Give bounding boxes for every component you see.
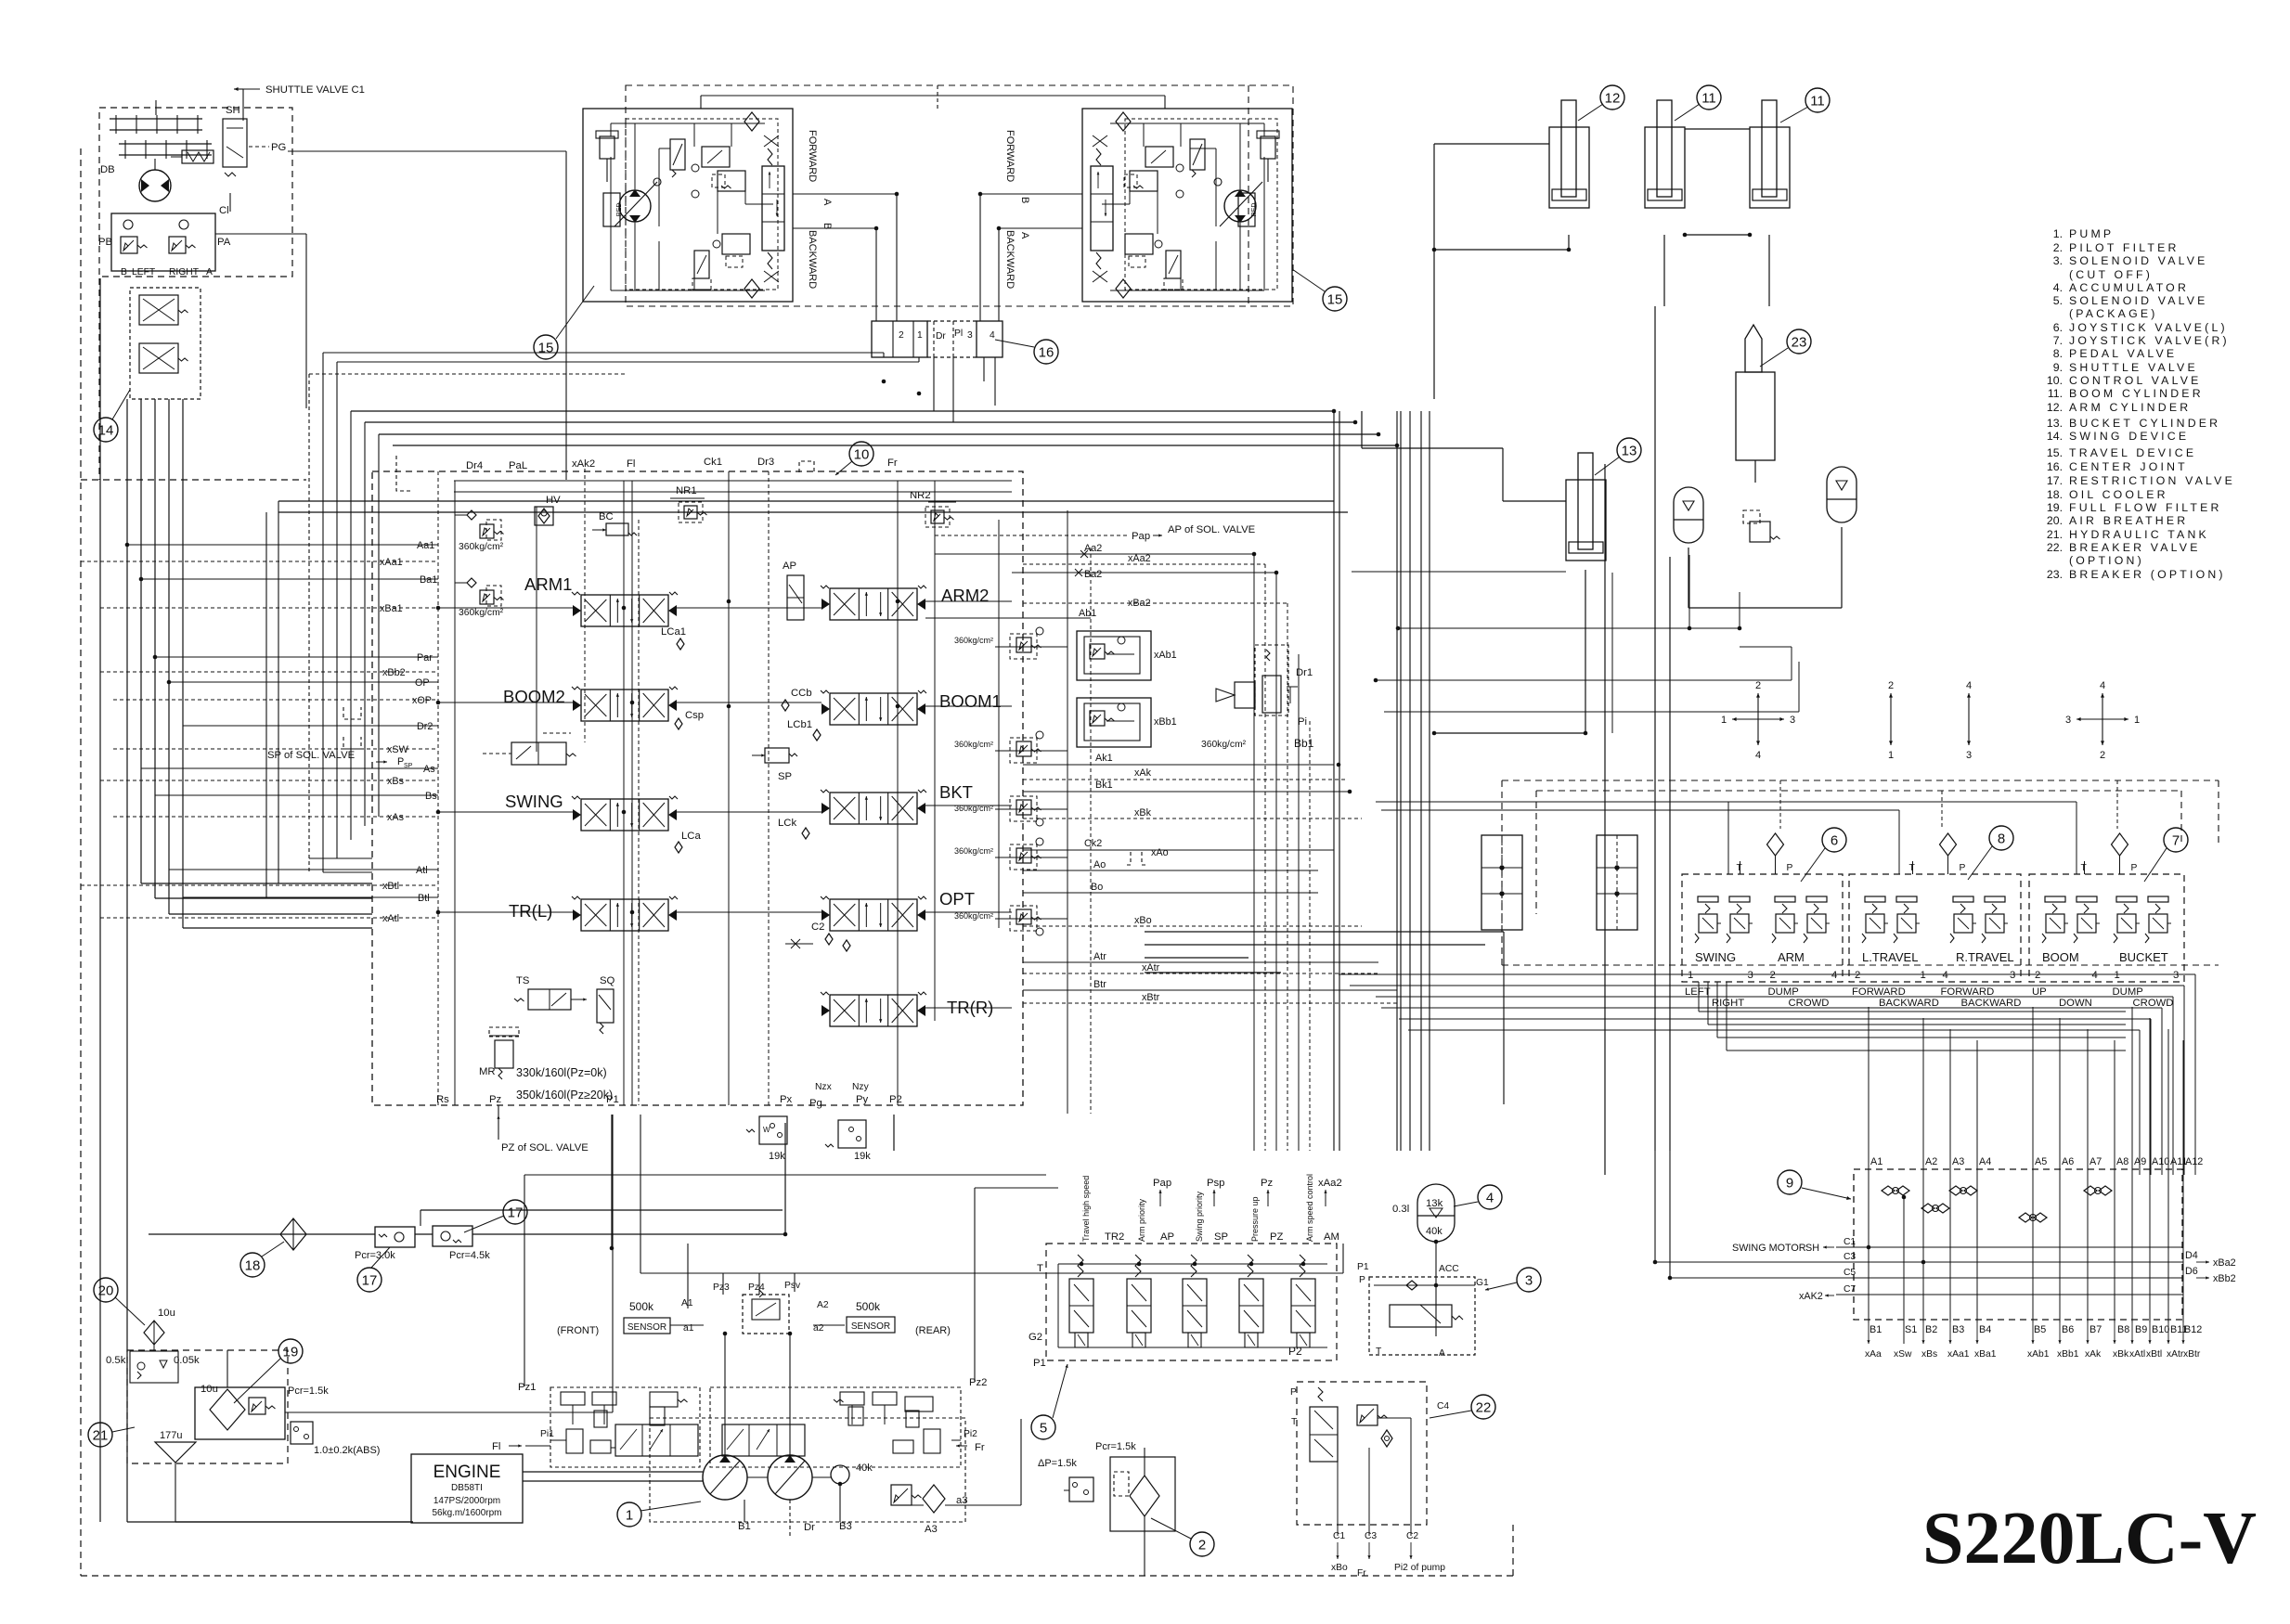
svg-text:350k/160l(Pz≥20k): 350k/160l(Pz≥20k)	[516, 1089, 613, 1102]
regulator internal detail left	[561, 1404, 585, 1406]
svg-text:SWING: SWING	[505, 792, 563, 811]
svg-text:A7: A7	[2089, 1156, 2102, 1167]
svg-text:18: 18	[245, 1257, 261, 1273]
svg-text:LCa: LCa	[681, 831, 701, 842]
svg-text:Fr: Fr	[975, 1442, 985, 1453]
svg-text:19.: 19.	[2047, 501, 2063, 514]
svg-text:CROWD: CROWD	[1789, 998, 1830, 1009]
svg-text:12.: 12.	[2047, 401, 2063, 414]
callout 23	[1787, 329, 1811, 354]
svg-text:P1: P1	[606, 1094, 619, 1105]
svg-text:UP: UP	[2032, 986, 2047, 998]
direction cross 1	[1757, 693, 1759, 719]
svg-text:Pi2: Pi2	[964, 1429, 977, 1439]
junction dots	[1252, 552, 1257, 557]
svg-text:Pz4: Pz4	[748, 1282, 765, 1293]
svg-text:B1: B1	[738, 1521, 751, 1532]
svg-text:6: 6	[1831, 832, 1838, 848]
svg-text:Travel high speed: Travel high speed	[1081, 1176, 1091, 1242]
svg-text:BOOM: BOOM	[2042, 950, 2079, 964]
svg-text:B5: B5	[2034, 1324, 2046, 1335]
svg-text:147PS/2000rpm: 147PS/2000rpm	[433, 1496, 500, 1506]
svg-text:xBtr: xBtr	[2183, 1349, 2201, 1360]
travel device 15 left enclosure	[626, 85, 1293, 306]
full flow filter 19	[195, 1387, 285, 1439]
middle wire bundle verticals	[1333, 411, 1335, 1151]
joystick valve 6 block	[1682, 874, 1843, 982]
svg-text:JOYSTICK VALVE(L): JOYSTICK VALVE(L)	[2069, 321, 2228, 334]
svg-text:10: 10	[854, 446, 870, 462]
svg-text:0.3l: 0.3l	[1392, 1204, 1409, 1215]
svg-text:Pz3: Pz3	[713, 1282, 730, 1293]
svg-text:LCa1: LCa1	[661, 626, 686, 638]
svg-text:C3: C3	[1844, 1252, 1856, 1262]
svg-text:1: 1	[2134, 715, 2140, 726]
svg-text:xBtl: xBtl	[2146, 1349, 2162, 1360]
svg-text:21.: 21.	[2047, 528, 2063, 541]
breaker relief valve	[1750, 522, 1770, 542]
hydraulic tank 21	[127, 1350, 288, 1463]
svg-text:D6: D6	[2185, 1266, 2198, 1277]
cylinder wires	[1568, 235, 1570, 250]
svg-text:SHUTTLE VALVE C1: SHUTTLE VALVE C1	[265, 84, 365, 96]
svg-text:T: T	[1291, 1417, 1298, 1427]
pump wires upper	[687, 1244, 689, 1308]
svg-text:CONTROL VALVE: CONTROL VALVE	[2069, 374, 2202, 387]
pilot filter 2	[1110, 1457, 1175, 1531]
svg-text:10u: 10u	[201, 1384, 218, 1395]
svg-text:(OPTION): (OPTION)	[2069, 554, 2144, 567]
svg-text:2.: 2.	[2053, 241, 2063, 254]
svg-text:Pcr=4.5k: Pcr=4.5k	[449, 1250, 490, 1261]
svg-text:RIGHT: RIGHT	[169, 267, 200, 277]
svg-text:Pi: Pi	[1298, 716, 1307, 728]
svg-text:A9: A9	[2134, 1156, 2146, 1167]
svg-text:B4: B4	[1979, 1324, 1991, 1335]
svg-text:Pcr=1.5k: Pcr=1.5k	[288, 1386, 329, 1397]
svg-text:xBs: xBs	[387, 776, 405, 787]
svg-text:BACKWARD: BACKWARD	[1879, 998, 1939, 1009]
svg-text:ACC: ACC	[1439, 1264, 1459, 1274]
svg-text:1: 1	[2115, 970, 2120, 981]
swing device wires	[126, 399, 128, 1522]
svg-text:RED: RED	[1251, 203, 1258, 217]
svg-text:xBk: xBk	[1134, 807, 1152, 818]
svg-text:T: T	[1376, 1347, 1382, 1357]
svg-text:4: 4	[1755, 750, 1761, 761]
check block pair right	[1597, 835, 1637, 930]
svg-text:8.: 8.	[2053, 347, 2063, 360]
svg-text:SH: SH	[226, 105, 240, 116]
svg-text:Pi1: Pi1	[540, 1429, 554, 1439]
svg-text:360kg/cm²: 360kg/cm²	[1201, 740, 1247, 750]
svg-text:xBo: xBo	[1331, 1563, 1348, 1573]
shuttle valve internal verticals	[1868, 1175, 1870, 1322]
svg-text:TR(L): TR(L)	[509, 901, 552, 921]
svg-text:S1: S1	[1905, 1324, 1917, 1335]
svg-text:TRAVEL DEVICE: TRAVEL DEVICE	[2069, 446, 2196, 459]
svg-text:2: 2	[1855, 970, 1860, 981]
svg-text:SWING: SWING	[1695, 950, 1736, 964]
svg-text:3.: 3.	[2053, 254, 2063, 267]
direction cross 2	[1890, 693, 1892, 719]
svg-text:2: 2	[2035, 970, 2040, 981]
svg-text:PZ of SOL. VALVE: PZ of SOL. VALVE	[501, 1142, 589, 1154]
svg-text:Aa2: Aa2	[1084, 543, 1102, 554]
svg-text:BACKWARD: BACKWARD	[1004, 230, 1016, 289]
svg-text:Dr2: Dr2	[417, 721, 433, 732]
svg-text:DUMP: DUMP	[1768, 986, 1799, 998]
svg-text:3: 3	[967, 330, 973, 341]
svg-text:Pz1: Pz1	[518, 1382, 536, 1393]
svg-text:SOLENOID VALVE: SOLENOID VALVE	[2069, 254, 2208, 267]
svg-text:P: P	[1787, 863, 1793, 873]
left port lines solid	[127, 544, 438, 546]
callout 13	[1617, 438, 1641, 462]
svg-text:P2: P2	[1288, 1345, 1302, 1358]
svg-text:3: 3	[1790, 715, 1795, 726]
pump enclosure dashed	[650, 1418, 965, 1522]
svg-text:xBo: xBo	[1134, 915, 1152, 926]
svg-text:2: 2	[1770, 970, 1776, 981]
svg-text:xAb1: xAb1	[2027, 1349, 2050, 1360]
svg-text:17: 17	[508, 1205, 524, 1220]
svg-text:L.TRAVEL: L.TRAVEL	[1862, 950, 1918, 964]
svg-text:Dr3: Dr3	[757, 457, 774, 468]
joystick valve 7 block	[2029, 874, 2184, 982]
svg-text:10u: 10u	[158, 1308, 175, 1319]
control valve internal verticals	[437, 471, 439, 1105]
svg-text:Nzy: Nzy	[852, 1082, 870, 1092]
callout 10	[849, 442, 873, 466]
svg-text:22.: 22.	[2047, 541, 2063, 554]
swing device 14 enclosure	[99, 108, 292, 277]
svg-text:LCb1: LCb1	[787, 719, 812, 730]
svg-text:ARM2: ARM2	[941, 586, 989, 605]
svg-text:0.5k: 0.5k	[106, 1355, 126, 1366]
regulator internal detail right	[840, 1404, 864, 1406]
solenoid package bus lines	[1058, 1263, 1327, 1265]
svg-text:3: 3	[1748, 970, 1753, 981]
svg-text:15.: 15.	[2047, 446, 2063, 459]
svg-text:1: 1	[626, 1507, 633, 1523]
svg-text:ΔP=1.5k: ΔP=1.5k	[1038, 1458, 1077, 1469]
T port feed lines	[1376, 801, 2077, 803]
right middle pilot supply dashed loop	[1502, 780, 2219, 781]
svg-text:Par: Par	[417, 652, 433, 664]
svg-text:9: 9	[1786, 1175, 1793, 1191]
svg-text:P2: P2	[889, 1094, 902, 1105]
svg-text:13.: 13.	[2047, 417, 2063, 430]
cutoff solenoid 3 enclosure	[1369, 1277, 1475, 1355]
svg-text:Pz2: Pz2	[969, 1377, 987, 1388]
control valve inner frame	[454, 480, 1012, 482]
filter pressure switch	[291, 1422, 313, 1444]
svg-text:SHUTTLE VALVE: SHUTTLE VALVE	[2069, 361, 2198, 374]
svg-text:HV: HV	[546, 495, 561, 506]
svg-text:1: 1	[1921, 970, 1926, 981]
svg-text:4: 4	[1943, 970, 1948, 981]
svg-text:xAK2: xAK2	[1799, 1291, 1823, 1302]
svg-text:C1: C1	[1844, 1237, 1856, 1247]
svg-text:C2: C2	[1406, 1531, 1418, 1541]
svg-text:Ab1: Ab1	[1079, 608, 1096, 619]
svg-text:D4: D4	[2185, 1250, 2198, 1261]
svg-text:A8: A8	[2116, 1156, 2128, 1167]
svg-text:xAk: xAk	[2085, 1349, 2102, 1360]
svg-text:LEFT: LEFT	[132, 267, 156, 277]
svg-text:1: 1	[1688, 970, 1693, 981]
gear pump	[831, 1465, 849, 1484]
pilot filter pressure switch	[1069, 1477, 1093, 1502]
svg-text:Fr: Fr	[887, 458, 898, 469]
svg-text:HYDRAULIC TANK: HYDRAULIC TANK	[2069, 528, 2209, 541]
svg-text:500k: 500k	[856, 1300, 881, 1313]
callout 15 left	[534, 335, 558, 359]
callout 17 left	[357, 1268, 382, 1292]
svg-text:10.: 10.	[2047, 374, 2063, 387]
shuttle valve 9 block	[1854, 1169, 2182, 1320]
right lower wires	[1654, 1151, 1656, 1262]
svg-text:Pcr=3.0k: Pcr=3.0k	[355, 1250, 395, 1261]
svg-text:AP of SOL. VALVE: AP of SOL. VALVE	[1168, 524, 1256, 535]
tank return dashed bottom line	[81, 1575, 1513, 1577]
svg-text:17: 17	[362, 1272, 378, 1288]
svg-text:5: 5	[1040, 1420, 1047, 1436]
svg-text:PILOT FILTER: PILOT FILTER	[2069, 241, 2180, 254]
svg-text:A: A	[822, 199, 833, 206]
svg-text:P: P	[1359, 1275, 1365, 1285]
svg-text:C3: C3	[1365, 1531, 1377, 1541]
svg-text:Csp: Csp	[685, 710, 704, 721]
svg-text:ARM CYLINDER: ARM CYLINDER	[2069, 401, 2191, 414]
svg-text:Pap: Pap	[1132, 531, 1150, 542]
psv regulator	[743, 1295, 789, 1334]
svg-text:Dr: Dr	[936, 331, 946, 342]
svg-text:7: 7	[2172, 832, 2180, 848]
svg-text:MR: MR	[479, 1066, 496, 1077]
damper 19k left	[759, 1116, 787, 1144]
svg-text:A3: A3	[925, 1524, 938, 1535]
boom cylinder 11 right	[1750, 127, 1790, 208]
svg-text:19k: 19k	[854, 1151, 871, 1162]
callout 16	[1034, 340, 1058, 364]
svg-text:A2: A2	[817, 1300, 829, 1310]
anti-cavitation valve upper	[130, 288, 201, 399]
svg-text:1: 1	[1888, 750, 1894, 761]
cooler line	[149, 1233, 375, 1235]
swing motor	[139, 170, 171, 201]
svg-text:xBk: xBk	[2113, 1349, 2129, 1360]
svg-text:23.: 23.	[2047, 568, 2063, 581]
svg-text:OP: OP	[415, 677, 430, 689]
svg-text:xBb2: xBb2	[2213, 1273, 2236, 1284]
callout 4	[1478, 1185, 1502, 1209]
svg-text:G1: G1	[1476, 1278, 1489, 1288]
lower return bundle	[1145, 931, 1504, 933]
svg-text:177u: 177u	[160, 1430, 182, 1441]
svg-text:5.: 5.	[2053, 294, 2063, 307]
svg-text:B: B	[121, 267, 127, 277]
callout 18	[240, 1253, 265, 1277]
svg-text:FORWARD: FORWARD	[1852, 986, 1906, 998]
valve xSW	[511, 742, 566, 765]
callout 17 right	[503, 1200, 527, 1224]
oil cooler 18	[280, 1218, 306, 1250]
main pump right	[768, 1455, 812, 1500]
svg-text:4: 4	[1486, 1190, 1494, 1205]
svg-text:23: 23	[1792, 334, 1807, 350]
svg-text:NR1: NR1	[676, 485, 697, 496]
restriction valve 17 b	[433, 1226, 472, 1246]
svg-text:Atl: Atl	[416, 865, 428, 876]
pump relief and filter	[891, 1485, 912, 1505]
svg-text:Aa1: Aa1	[417, 540, 434, 551]
breaker 23	[1736, 372, 1775, 460]
svg-text:As: As	[423, 764, 435, 775]
svg-text:A6: A6	[2062, 1156, 2074, 1167]
svg-text:xAo: xAo	[1151, 847, 1169, 858]
callout 22	[1471, 1395, 1495, 1419]
svg-text:BUCKET CYLINDER: BUCKET CYLINDER	[2069, 417, 2220, 430]
svg-text:TS: TS	[516, 975, 530, 986]
svg-text:xAk2: xAk2	[572, 458, 595, 470]
center joint 16	[872, 321, 927, 357]
svg-text:2: 2	[2100, 750, 2105, 761]
svg-text:(FRONT): (FRONT)	[557, 1325, 599, 1336]
svg-text:13: 13	[1622, 443, 1637, 458]
svg-text:Px: Px	[780, 1094, 793, 1105]
svg-text:B12: B12	[2184, 1324, 2202, 1335]
svg-text:PZ: PZ	[1270, 1231, 1284, 1243]
svg-text:RIGHT: RIGHT	[1712, 998, 1744, 1009]
svg-text:56kg.m/1600rpm: 56kg.m/1600rpm	[432, 1508, 501, 1518]
svg-text:B3: B3	[1952, 1324, 1964, 1335]
bracket near Dr3	[799, 461, 814, 472]
svg-text:P1: P1	[1033, 1358, 1046, 1369]
svg-text:500k: 500k	[629, 1300, 654, 1313]
breaker valve 22 enclosure	[1297, 1382, 1427, 1525]
svg-text:Fr: Fr	[1357, 1568, 1366, 1579]
svg-text:Ck1: Ck1	[704, 457, 722, 468]
svg-text:G2: G2	[1029, 1332, 1042, 1343]
callout 11 right	[1805, 88, 1830, 112]
svg-text:Pz: Pz	[1261, 1178, 1274, 1189]
svg-text:3: 3	[1966, 750, 1972, 761]
svg-text:AM: AM	[1324, 1231, 1339, 1243]
bucket cylinder 13	[1566, 480, 1606, 561]
svg-text:xAtr: xAtr	[1142, 962, 1160, 973]
svg-text:PUMP: PUMP	[2069, 227, 2114, 240]
svg-text:FORWARD: FORWARD	[807, 130, 818, 182]
svg-text:16.: 16.	[2047, 460, 2063, 473]
svg-text:SWING MOTOR: SWING MOTOR	[1732, 1243, 1806, 1254]
direction cross 4	[2102, 693, 2103, 719]
svg-text:15: 15	[538, 340, 554, 355]
callout 1	[617, 1502, 641, 1527]
svg-text:xAtl: xAtl	[2129, 1349, 2145, 1360]
svg-text:(CUT OFF): (CUT OFF)	[2069, 268, 2153, 281]
svg-text:Bb1: Bb1	[1294, 737, 1314, 750]
svg-text:C5: C5	[1844, 1268, 1856, 1278]
callout 21	[88, 1423, 112, 1447]
svg-text:C4: C4	[1437, 1401, 1449, 1411]
svg-text:Pl: Pl	[954, 329, 963, 339]
svg-text:xBb1: xBb1	[2057, 1349, 2079, 1360]
svg-text:Pcr=1.5k: Pcr=1.5k	[1095, 1441, 1136, 1452]
arm cylinder 12	[1549, 127, 1589, 208]
svg-text:4: 4	[990, 330, 995, 341]
main pump left	[703, 1455, 747, 1500]
svg-text:T: T	[1037, 1263, 1043, 1274]
svg-text:330k/160l(Pz=0k): 330k/160l(Pz=0k)	[516, 1066, 607, 1079]
svg-text:3: 3	[2173, 970, 2179, 981]
svg-text:B10: B10	[2152, 1324, 2169, 1335]
svg-text:B: B	[1019, 197, 1030, 203]
svg-text:A: A	[206, 267, 213, 277]
svg-text:SP of SOL. VALVE: SP of SOL. VALVE	[267, 750, 356, 761]
svg-text:PaL: PaL	[509, 460, 527, 471]
callout 7	[2164, 828, 2188, 852]
svg-text:Ak1: Ak1	[1095, 753, 1113, 764]
svg-text:A12: A12	[2185, 1156, 2203, 1167]
svg-text:xBa1: xBa1	[1974, 1349, 1997, 1360]
svg-text:P: P	[2131, 863, 2138, 873]
svg-text:xAa2: xAa2	[1128, 553, 1151, 564]
top middle horizontals	[351, 410, 1334, 412]
regulator right cluster	[710, 1387, 961, 1467]
boom cylinder 11 left	[1645, 127, 1685, 208]
svg-text:Rs: Rs	[436, 1094, 449, 1105]
svg-text:Arm priority: Arm priority	[1137, 1198, 1146, 1242]
svg-text:14.: 14.	[2047, 430, 2063, 443]
svg-text:FULL FLOW FILTER: FULL FLOW FILTER	[2069, 501, 2222, 514]
svg-text:BREAKER VALVE: BREAKER VALVE	[2069, 541, 2201, 554]
svg-text:Bo: Bo	[1091, 882, 1103, 893]
svg-text:Fl: Fl	[627, 458, 635, 470]
relief valve assembly PB PA	[111, 213, 215, 271]
svg-text:AIR BREATHER: AIR BREATHER	[2069, 514, 2188, 527]
svg-text:DOWN: DOWN	[2059, 998, 2092, 1009]
damper 19k right	[838, 1120, 866, 1148]
svg-text:Fl: Fl	[492, 1441, 500, 1452]
svg-text:13k: 13k	[1426, 1198, 1443, 1209]
callout 5	[1031, 1415, 1055, 1439]
svg-text:0.05k: 0.05k	[174, 1355, 200, 1366]
svg-text:40k: 40k	[1426, 1226, 1443, 1237]
svg-text:9.: 9.	[2053, 361, 2063, 374]
svg-text:SWING DEVICE: SWING DEVICE	[2069, 430, 2189, 443]
svg-text:Ba1: Ba1	[420, 574, 437, 586]
valve SP	[765, 748, 789, 763]
svg-text:PB: PB	[98, 237, 112, 248]
svg-text:SH: SH	[1805, 1243, 1819, 1254]
bottom distribution wires	[524, 1174, 1046, 1176]
svg-text:xBb2: xBb2	[382, 667, 406, 678]
control valve row lines	[438, 607, 573, 609]
svg-text:BOOM2: BOOM2	[503, 687, 565, 706]
svg-text:3: 3	[1525, 1272, 1533, 1288]
bracket near Dr4	[396, 456, 413, 491]
svg-text:B1: B1	[1870, 1324, 1882, 1335]
svg-text:ACCUMULATOR: ACCUMULATOR	[2069, 281, 2189, 294]
svg-text:Dr: Dr	[804, 1522, 815, 1533]
svg-text:1.0±0.2k(ABS): 1.0±0.2k(ABS)	[314, 1445, 380, 1456]
svg-text:1.: 1.	[2053, 227, 2063, 240]
breaker valve wires	[1337, 1462, 1339, 1536]
right long lines	[935, 553, 1254, 555]
svg-text:B3: B3	[839, 1521, 852, 1532]
